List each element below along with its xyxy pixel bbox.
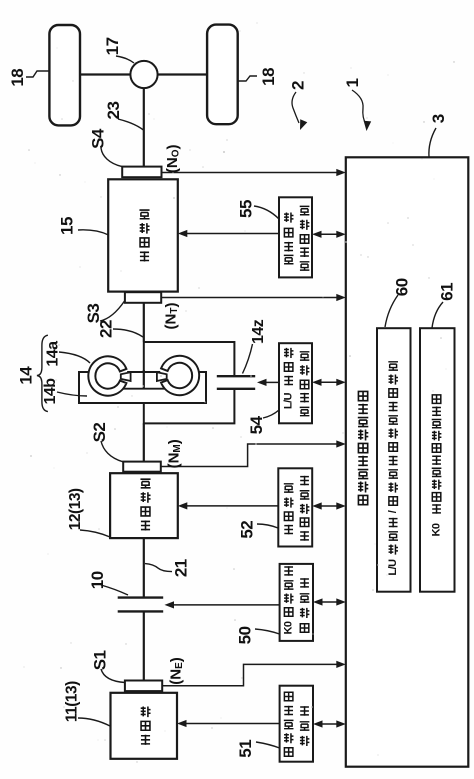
arrow 1	[352, 90, 366, 124]
torque converter 14 housing	[144, 342, 235, 423]
leader 60	[385, 295, 398, 327]
svg-text:11(13): 11(13)	[64, 681, 81, 722]
box 52 MG operation control	[278, 468, 312, 546]
leader 23	[118, 119, 144, 130]
svg-text:/: /	[387, 510, 399, 513]
svg-text:14b: 14b	[42, 378, 59, 405]
leader 52	[257, 524, 278, 528]
rotating electric machine 12(13)	[110, 473, 178, 538]
K0 clutch 10 plates	[118, 596, 164, 598]
svg-text:52: 52	[237, 521, 256, 539]
leader 61	[432, 302, 443, 328]
wire: box52 to unit 3 (double arrow)	[320, 505, 338, 507]
text transmission (bian su zhuang zhi)	[140, 251, 149, 261]
sensor S1 coupling	[125, 681, 162, 692]
wheel 18 (right)	[207, 25, 238, 125]
box 60 L/U clutch / MG command generator	[377, 328, 411, 592]
leader 18 left	[26, 71, 50, 77]
wire: NT sensor line to unit 3	[161, 297, 338, 299]
wire: box54 to lockup clutch	[265, 381, 279, 383]
wire: box51 to unit 3 (double arrow)	[321, 723, 338, 725]
text box52 col1	[284, 525, 293, 535]
leader 22	[113, 329, 143, 337]
wire: shaft to S1	[143, 611, 145, 680]
svg-text:21: 21	[172, 559, 191, 577]
svg-text:18: 18	[8, 69, 27, 87]
wire: box55 to transmission	[186, 233, 279, 235]
leader 15	[78, 230, 109, 235]
svg-text:K0: K0	[283, 621, 295, 634]
leader S2	[101, 441, 123, 462]
leader 3	[429, 128, 436, 157]
text MG (xuan zhuan dian ji)	[141, 520, 150, 530]
svg-text:14z: 14z	[250, 319, 267, 344]
wire: box50 to K0 clutch	[173, 604, 280, 606]
box 54 L/U clutch operation control	[279, 343, 312, 423]
wire: box50 to unit 3 (double arrow)	[321, 601, 338, 603]
leader 17	[116, 56, 134, 63]
leader 55	[254, 206, 279, 219]
svg-text:18: 18	[259, 68, 278, 86]
leader 14a	[59, 352, 90, 363]
leader S4	[101, 148, 122, 167]
leader 11(13)	[78, 718, 110, 726]
svg-text:K0: K0	[431, 523, 443, 536]
leader 21	[145, 564, 172, 572]
svg-text:14: 14	[16, 366, 35, 385]
box 61 K0 clutch command generator	[420, 328, 455, 592]
leader 12(13)	[80, 530, 110, 537]
svg-text:23: 23	[104, 102, 123, 120]
text engine (fa dong ji)	[141, 735, 150, 745]
svg-text:(NO): (NO)	[164, 144, 181, 173]
turbine hub plate	[79, 372, 206, 403]
leader 54	[263, 410, 279, 418]
text box50 col2	[300, 624, 309, 633]
pump impeller 14a (ring)	[88, 356, 127, 395]
leader 14b	[57, 392, 87, 396]
wire: NM sensor line to unit 3	[161, 444, 338, 467]
arrow 2	[292, 92, 299, 123]
leader 18 right	[237, 76, 257, 81]
leader 51	[256, 742, 280, 748]
svg-text:54: 54	[247, 415, 266, 434]
box 55 transmission operation control	[279, 197, 312, 277]
leader 14z	[243, 344, 253, 374]
svg-text:12(13): 12(13)	[67, 488, 84, 530]
box 51 engine operation control	[280, 686, 313, 762]
leader S1	[101, 669, 125, 683]
text box55 col1	[284, 255, 294, 263]
svg-text:L/U: L/U	[387, 559, 399, 576]
svg-text:10: 10	[88, 571, 107, 589]
box 50 K0 clutch operation control	[280, 564, 313, 641]
hub bar	[123, 388, 164, 390]
wire: shaft to S2	[143, 423, 145, 461]
wire: box51 to engine	[185, 723, 280, 725]
text box54 col2	[300, 407, 310, 415]
svg-text:1: 1	[343, 78, 362, 87]
wire: propeller shaft 23	[143, 88, 145, 167]
wire: NO sensor line to unit 3	[161, 172, 338, 174]
leader 50	[255, 629, 280, 634]
svg-text:(NT): (NT)	[163, 303, 180, 330]
wire: input shaft inside TC	[143, 370, 145, 389]
lockup clutch 14z plates	[217, 375, 255, 377]
svg-text:61: 61	[438, 283, 457, 301]
control unit 3 (engine start control unit)	[346, 157, 469, 766]
wedge right	[157, 372, 167, 381]
svg-text:3: 3	[429, 114, 448, 123]
wheel 18 (left)	[49, 25, 80, 125]
transmission 15	[108, 179, 178, 291]
text box55 col2	[300, 262, 310, 270]
svg-text:17: 17	[103, 37, 122, 55]
svg-text:15: 15	[58, 217, 77, 235]
text box51 col2	[300, 736, 309, 746]
sensor S3 coupling	[125, 292, 161, 303]
wire: shaft 21	[143, 538, 145, 598]
svg-text:60: 60	[392, 278, 411, 296]
engine 11(13)	[111, 693, 178, 759]
wire: box55 to unit 3 (double arrow)	[320, 233, 338, 235]
svg-text:2: 2	[289, 81, 308, 90]
sensor S4 coupling	[122, 167, 161, 178]
svg-text:S4: S4	[89, 128, 108, 149]
text box52 col2	[300, 531, 309, 541]
svg-text:S2: S2	[90, 423, 109, 443]
svg-text:55: 55	[237, 200, 256, 218]
scan noise	[153, 118, 156, 121]
svg-text:(NM): (NM)	[165, 439, 182, 468]
svg-text:50: 50	[235, 626, 254, 644]
text unit3 title (fa dong ji qi dong kong zhi dan yuan)	[358, 495, 367, 504]
text box51 col1	[284, 748, 293, 757]
wire: NE sensor line to unit 3	[162, 664, 338, 685]
wedge left	[121, 372, 131, 381]
svg-text:S1: S1	[90, 650, 109, 670]
differential 17	[130, 61, 157, 88]
turbine 14b (ring)	[160, 356, 199, 395]
svg-text:51: 51	[236, 740, 255, 758]
leader 10	[101, 585, 128, 595]
wire: shaft 22	[143, 303, 145, 342]
svg-text:22: 22	[97, 320, 116, 338]
sensor S2 coupling	[123, 462, 161, 472]
svg-text:L/U: L/U	[283, 392, 295, 409]
axle shaft	[80, 73, 131, 75]
wire: box54 to unit 3 (double arrow)	[320, 381, 338, 383]
wire: box52 to MG	[186, 505, 278, 507]
svg-text:(NE): (NE)	[167, 657, 184, 685]
brace 14	[37, 335, 48, 411]
leader S3	[100, 301, 125, 321]
